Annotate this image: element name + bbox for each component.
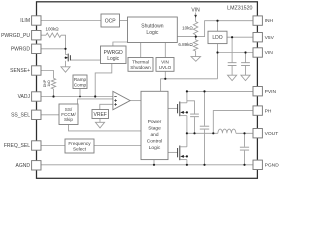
svg-text:PH: PH <box>265 108 272 114</box>
svg-text:LDO: LDO <box>212 35 222 41</box>
svg-text:AGND: AGND <box>16 163 31 169</box>
svg-text:SENSE+: SENSE+ <box>10 68 30 74</box>
svg-text:Logic: Logic <box>149 145 161 151</box>
svg-text:Logic: Logic <box>107 56 119 62</box>
svg-text:Shutdown: Shutdown <box>141 24 163 30</box>
svg-text:SS_SEL: SS_SEL <box>11 113 30 119</box>
svg-text:10kΩ: 10kΩ <box>182 25 193 30</box>
svg-text:Ramp: Ramp <box>74 77 87 82</box>
svg-text:PWRGD: PWRGD <box>11 47 31 53</box>
svg-text:VIN: VIN <box>161 60 169 65</box>
svg-text:LMZ31520: LMZ31520 <box>227 5 252 11</box>
svg-text:Thermal: Thermal <box>132 60 149 65</box>
svg-text:Logic: Logic <box>146 30 158 36</box>
svg-text:VREF: VREF <box>94 112 107 118</box>
svg-text:Stage: Stage <box>148 126 161 132</box>
svg-text:VIN: VIN <box>265 50 274 56</box>
svg-text:V5V: V5V <box>265 35 275 41</box>
svg-text:1kΩ: 1kΩ <box>47 80 51 87</box>
svg-text:and: and <box>150 132 158 138</box>
svg-text:INH: INH <box>265 18 274 24</box>
svg-text:Shutdown: Shutdown <box>130 65 151 70</box>
svg-text:VOUT: VOUT <box>265 131 279 137</box>
svg-text:VADJ: VADJ <box>18 94 31 100</box>
svg-text:PWRGD: PWRGD <box>104 50 124 56</box>
svg-text:Frequency: Frequency <box>68 141 91 146</box>
svg-text:VIN: VIN <box>191 7 200 13</box>
svg-text:UVLO: UVLO <box>159 65 172 70</box>
svg-text:Skip: Skip <box>64 117 73 122</box>
svg-text:PVIN: PVIN <box>265 89 277 95</box>
svg-text:Power: Power <box>148 119 162 125</box>
svg-text:100kΩ: 100kΩ <box>45 26 59 31</box>
svg-text:OCP: OCP <box>105 18 117 24</box>
svg-text:PGND: PGND <box>265 162 280 168</box>
svg-text:FREQ_SEL: FREQ_SEL <box>4 143 30 149</box>
svg-text:6.89kΩ: 6.89kΩ <box>178 42 193 47</box>
svg-text:ILIM: ILIM <box>20 18 30 24</box>
svg-text:Control: Control <box>147 138 162 144</box>
svg-text:Select: Select <box>73 147 87 152</box>
svg-text:PWRGD_PU: PWRGD_PU <box>1 33 30 39</box>
svg-text:Comp: Comp <box>74 83 87 88</box>
